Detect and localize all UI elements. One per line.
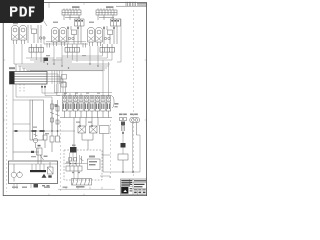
fold line (dashed vertical right)	[133, 10, 135, 178]
terminal strip X1	[60, 93, 119, 118]
motor control dashed box	[64, 150, 102, 180]
auxiliary block K3a	[111, 19, 121, 26]
heater E1 (bold bar)	[30, 164, 47, 178]
lamp H5 (dome)	[88, 28, 95, 47]
bottom rail	[58, 187, 115, 189]
separator dashed line left	[6, 95, 8, 192]
inter-comb marks	[47, 43, 86, 48]
motor label	[76, 186, 85, 188]
contactor contacts cluster3	[100, 26, 117, 52]
lamp H3 (dome)	[52, 28, 59, 47]
drawing frame border	[3, 3, 146, 196]
cable label	[9, 67, 15, 69]
level switch L1	[48, 162, 54, 178]
pump P1	[11, 164, 22, 182]
title block	[121, 179, 147, 195]
horizontal bus wires	[14, 42, 110, 72]
contactor contacts cluster2	[65, 26, 81, 52]
junction circles cluster3	[104, 37, 110, 39]
wires below cable	[13, 84, 52, 132]
drain lines under tank	[14, 184, 31, 190]
label above lamps cluster2	[53, 22, 58, 24]
wire to title block	[100, 176, 110, 178]
small box B1	[118, 154, 128, 172]
bus junction dots	[43, 61, 44, 62]
relay K3	[96, 6, 117, 20]
float switch above tank	[13, 131, 48, 164]
bottom bus wire	[103, 160, 140, 173]
inner components dashed box	[65, 145, 88, 165]
wires cluster3 bends	[52, 19, 121, 66]
lamp H1 (dome)	[12, 26, 19, 45]
auxiliary block K2a	[75, 19, 85, 26]
motor M1 hatched	[72, 171, 92, 185]
relay contacts mid K4	[74, 118, 109, 173]
lamp H4 (dome)	[60, 28, 67, 47]
fuse chain F1	[50, 100, 58, 131]
pressure switch labels right	[119, 114, 138, 116]
relay K2	[62, 6, 81, 20]
cable exit wires right (staircase to terminals)	[47, 74, 66, 95]
nested corner wires to terminal strip	[52, 60, 112, 131]
lamp H6 (dome)	[96, 28, 103, 47]
logo	[121, 187, 128, 194]
junction circles cluster2	[68, 37, 74, 39]
scattered tiny labels	[31, 55, 100, 163]
separator dashed line mid	[60, 121, 62, 192]
pressure switch S1	[120, 118, 127, 134]
PDF badge	[0, 0, 44, 23]
connector row	[66, 166, 82, 171]
label above lamps cluster1	[13, 23, 18, 24]
solenoid Y1 dark	[121, 143, 126, 154]
horizontal wire mid-left	[13, 130, 75, 131]
wires cluster1 down	[14, 36, 44, 64]
border zone ticks	[3, 3, 146, 196]
junction circles cluster1	[39, 37, 45, 39]
cable entry bends	[16, 64, 28, 72]
lamp H2 (dome)	[20, 26, 27, 45]
connector X9 (two circles)	[130, 118, 140, 139]
wires right column down	[123, 133, 140, 172]
labels under tank	[12, 187, 50, 188]
aux device box	[88, 156, 101, 170]
label above lamps cluster3	[89, 22, 94, 24]
wires inside dashed box	[70, 153, 111, 174]
separator dashed line right	[110, 120, 112, 178]
distribution comb after cable	[41, 71, 67, 96]
left equipment box outline	[30, 100, 44, 140]
contactor contacts cluster1	[28, 25, 44, 52]
hydraulic unit box	[9, 161, 58, 184]
cable W1 (striped)	[10, 72, 48, 85]
valve symbols under wire	[32, 130, 60, 152]
contact block dark	[70, 147, 77, 153]
wires cluster2 down	[54, 46, 77, 66]
title block texts	[121, 180, 146, 193]
fuse chain F2	[56, 100, 60, 131]
wire stub from behind badge	[43, 20, 47, 26]
drain valve dark	[34, 184, 39, 188]
revision table strip	[116, 2, 147, 6]
junction box on bus	[44, 58, 49, 62]
